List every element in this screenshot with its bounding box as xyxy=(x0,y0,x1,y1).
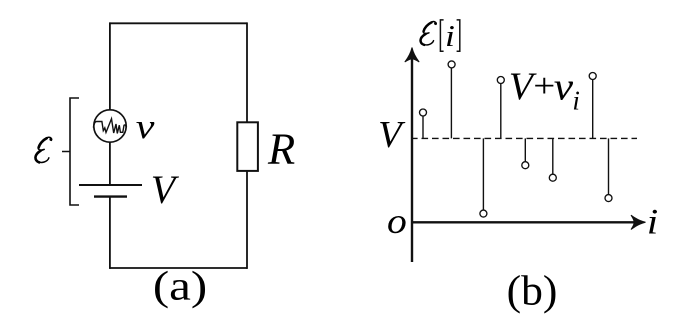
svg-text:o: o xyxy=(387,202,407,242)
stem 6 circle xyxy=(522,162,529,169)
script E of E[i] label xyxy=(420,22,436,45)
battery short plate xyxy=(94,195,127,197)
left bracket of [i] xyxy=(440,20,443,51)
svg-text:i: i xyxy=(647,202,659,242)
dashed line at V level xyxy=(411,137,637,139)
resistor R (box) xyxy=(237,122,258,171)
wire left lower segment xyxy=(109,197,111,269)
label i (axis) xyxy=(647,202,659,242)
stem 1 up xyxy=(422,116,424,138)
stem 8 down xyxy=(608,138,610,194)
svg-text:V: V xyxy=(151,167,180,212)
battery long plate xyxy=(79,184,142,186)
label (b) xyxy=(507,268,558,315)
vertical axis arrowhead xyxy=(405,48,419,63)
noise waveform inside source xyxy=(93,119,126,134)
bracket for script E xyxy=(62,98,79,205)
noise source v (circle) xyxy=(94,110,126,142)
wire left upper segment xyxy=(109,22,111,110)
horizontal axis line xyxy=(412,221,636,223)
svg-text:R: R xyxy=(267,124,295,174)
wire right lower segment xyxy=(246,171,248,269)
wire right upper segment xyxy=(246,22,248,122)
svg-text:V: V xyxy=(378,114,406,156)
svg-text:+: + xyxy=(533,66,555,104)
stem 2 up xyxy=(450,68,452,138)
stem 3 up xyxy=(500,84,502,139)
wire bottom of loop xyxy=(110,267,247,269)
stem 4 circle xyxy=(589,73,596,80)
plus of V+vi xyxy=(533,66,555,104)
svg-text:i: i xyxy=(572,85,580,115)
svg-text:v: v xyxy=(136,108,156,146)
stem 2 circle xyxy=(448,61,455,68)
label v xyxy=(136,108,156,146)
stem 6 down xyxy=(524,138,526,161)
stem 7 circle xyxy=(549,174,556,181)
svg-text:(b): (b) xyxy=(507,268,558,315)
wire top of loop xyxy=(110,22,247,24)
wire left between source and battery xyxy=(109,142,111,185)
i of E[i] xyxy=(445,19,455,53)
horizontal axis arrowhead xyxy=(631,215,646,229)
stem 8 circle xyxy=(605,195,612,202)
vertical axis line xyxy=(411,58,413,262)
svg-text:i: i xyxy=(445,19,455,53)
svg-text:v: v xyxy=(554,64,574,108)
stem 3 circle xyxy=(497,77,504,84)
right bracket of [i] xyxy=(457,20,460,51)
stem 5 circle xyxy=(480,210,487,217)
v of V+vi xyxy=(554,64,574,108)
script E label (circuit) xyxy=(35,137,52,162)
stem 5 down xyxy=(482,138,484,210)
svg-text:(a): (a) xyxy=(153,263,207,309)
stem 4 up xyxy=(592,80,594,139)
stem 1 circle xyxy=(420,109,427,116)
label o (origin) xyxy=(387,202,407,242)
stem 7 down xyxy=(552,138,554,174)
label (a) xyxy=(153,263,207,309)
